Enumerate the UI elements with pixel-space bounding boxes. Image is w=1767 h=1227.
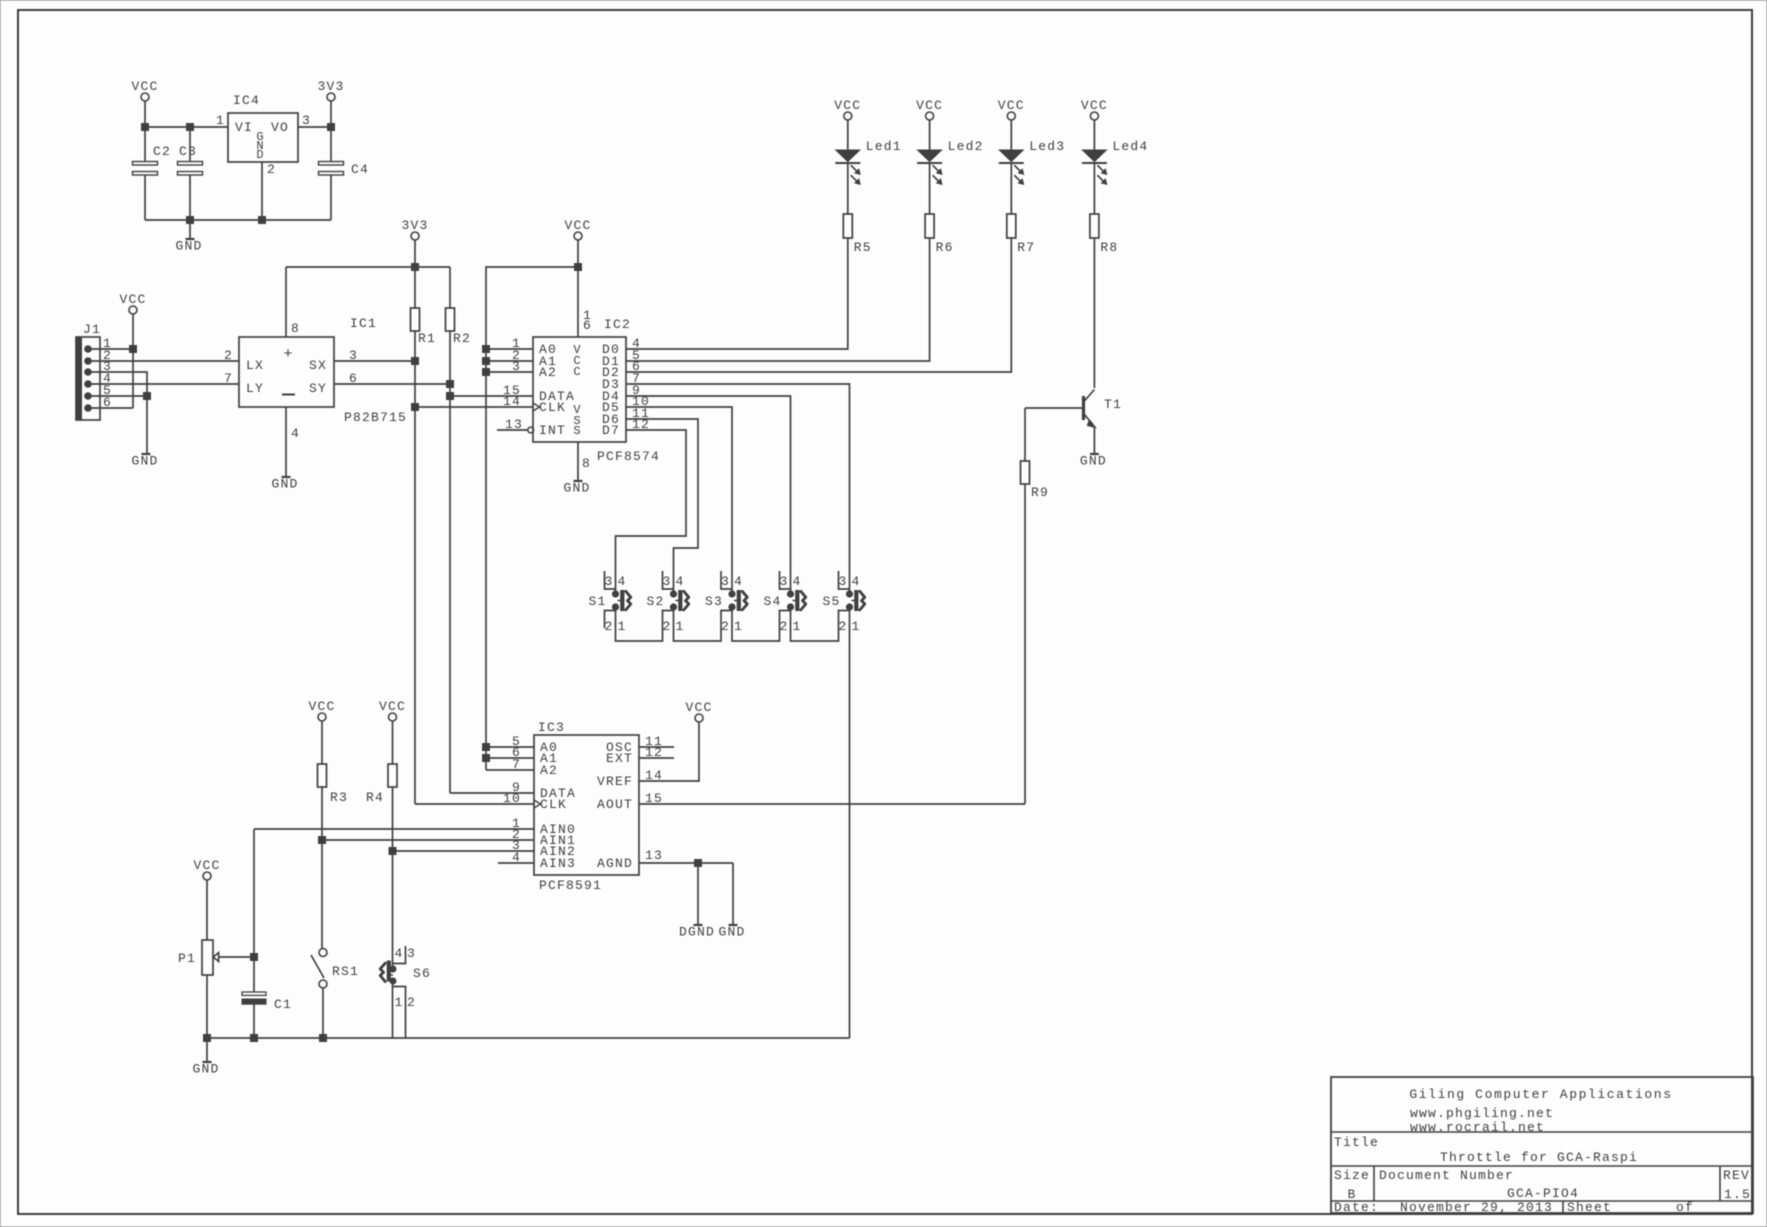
LED Led3 [999, 139, 1066, 214]
reed switch RS1 [311, 949, 359, 1039]
power symbol VCC (VREF) [685, 700, 712, 722]
svg-text:1: 1 [617, 619, 626, 634]
svg-text:S4: S4 [763, 594, 781, 609]
pin 3 label of IC4 [302, 113, 311, 128]
svg-text:S6: S6 [413, 966, 431, 981]
svg-text:3: 3 [604, 574, 613, 589]
svg-text:VCC: VCC [685, 700, 712, 715]
pin 7 label of IC2 [632, 371, 641, 386]
wire IC2 INT stub with inversion bubble [497, 427, 534, 433]
svg-text:3: 3 [662, 574, 671, 589]
svg-text:EXT: EXT [606, 751, 633, 766]
resistor R6 [925, 214, 954, 255]
wire R2 line to IC3 DATA [450, 792, 534, 794]
junction rail/RS1 [320, 1035, 327, 1042]
svg-text:3: 3 [407, 946, 416, 961]
pin 3 label of IC1 [349, 348, 358, 363]
ground symbol below J1 [131, 454, 158, 469]
I/O expander IC2 (PCF8574) [533, 317, 631, 442]
svg-text:of: of [1676, 1200, 1694, 1215]
wire J1 pin 3 to ground stem [91, 372, 147, 454]
wire IC3 AIN3 open stub [498, 862, 534, 864]
resistor R8 [1090, 214, 1119, 255]
junction J1 pin5/ground stem [144, 393, 151, 400]
pin 3 label of IC3 [512, 838, 521, 853]
pin 6 label of IC3 [512, 745, 521, 760]
svg-text:2: 2 [224, 348, 233, 363]
pin 15 label of IC3 [645, 791, 663, 806]
svg-text:Sheet: Sheet [1567, 1200, 1612, 1215]
svg-text:VCC: VCC [193, 858, 220, 873]
pin 10 label of IC3 [503, 791, 521, 806]
svg-text:2: 2 [267, 162, 276, 177]
ground symbol bottom rail [192, 1038, 219, 1077]
pin 1 label of J1 [103, 336, 112, 351]
junction address line / IC2 A1 [483, 358, 490, 365]
pin 2 label of J1 [103, 348, 112, 363]
svg-text:GND: GND [271, 477, 298, 492]
svg-text:1: 1 [851, 619, 860, 634]
pin 8 label of IC1 [291, 321, 300, 336]
pin 11 label of IC3 [645, 734, 663, 749]
capacitor C3 [178, 127, 203, 220]
svg-text:4: 4 [792, 574, 801, 589]
junction address line / IC3 A0 [483, 744, 490, 751]
svg-text:S3: S3 [705, 594, 723, 609]
wire IC3 OSC open stub [639, 746, 674, 748]
pin 8 label of IC2 [582, 456, 591, 471]
junction R3/AIN1 [319, 837, 326, 844]
svg-text:4: 4 [851, 574, 860, 589]
wire IC2 D1 to R6 [626, 238, 930, 361]
pin 14 label of IC3 [645, 768, 663, 783]
wire IC3 A2 stub [486, 769, 534, 771]
svg-text:A2: A2 [540, 763, 558, 778]
wire IC2 pin 8 to ground [577, 442, 579, 481]
svg-text:P1: P1 [178, 951, 196, 966]
LED Led1 [835, 139, 902, 214]
wire 3V3 rail [286, 266, 450, 268]
pin 2 label of IC2 [512, 348, 521, 363]
wire IC2 D7 to switch S1 [616, 430, 687, 591]
part value label PCF8574 [597, 449, 660, 464]
wire S3 pin 1 to S4 pin 2 [732, 607, 791, 641]
svg-text:4: 4 [617, 574, 626, 589]
wire IC2 D0 to R5 [626, 238, 848, 349]
wire R8 to T1 collector [1093, 238, 1095, 388]
svg-text:GND: GND [718, 925, 745, 940]
svg-text:2: 2 [604, 619, 613, 634]
power symbol 3V3 (pull-up supply) [401, 218, 428, 267]
pin 6 label of IC1 [349, 371, 358, 386]
svg-text:VCC: VCC [308, 699, 335, 714]
wire IC4 pin 3 to 3V3 node [298, 126, 331, 128]
wire J1 pin 4 to IC1 LY [91, 383, 239, 385]
svg-text:VCC: VCC [379, 699, 406, 714]
pin 11 label of IC2 [632, 406, 650, 421]
wire T1 emitter to ground [1093, 426, 1095, 454]
push button S1 [588, 571, 630, 634]
junction at C3 tap [187, 124, 194, 131]
svg-text:VCC: VCC [834, 98, 861, 113]
svg-text:3V3: 3V3 [317, 79, 344, 94]
connector J1 [76, 322, 101, 420]
resistor R9 [1021, 408, 1050, 804]
svg-text:GND: GND [175, 239, 202, 254]
svg-text:A2: A2 [539, 365, 557, 380]
svg-text:S: S [573, 424, 580, 438]
pin 15 label of IC2 [503, 383, 521, 398]
svg-text:VCC: VCC [131, 79, 158, 94]
pin 3 label of IC2 [512, 359, 521, 374]
svg-text:1: 1 [216, 113, 225, 128]
svg-text:1: 1 [394, 995, 403, 1010]
svg-text:3: 3 [721, 574, 730, 589]
wire T1 base to R9 [1025, 407, 1084, 409]
svg-text:AOUT: AOUT [597, 797, 633, 812]
pin 7 label of IC3 [512, 757, 521, 772]
title block [1331, 1077, 1753, 1215]
wire IC2 D4 to switch S4 [626, 396, 791, 591]
pin 3 label of J1 [103, 359, 112, 374]
svg-text:R3: R3 [330, 790, 348, 805]
pin 5 label of J1 [103, 383, 112, 398]
svg-text:REV: REV [1723, 1168, 1750, 1183]
svg-text:VO: VO [271, 120, 289, 135]
wire IC2 A0 stub [486, 348, 533, 350]
svg-text:2: 2 [838, 619, 847, 634]
junction R1/SX [412, 358, 419, 365]
svg-text:DGND: DGND [679, 925, 715, 940]
wire ground rail under IC4 [145, 219, 331, 221]
wire IC2 D5 to switch S3 [626, 407, 732, 591]
wire R1 node to IC2 CLK [415, 406, 533, 408]
svg-text:13: 13 [645, 848, 663, 863]
svg-text:www.phgiling.net: www.phgiling.net [1410, 1106, 1554, 1121]
resistor R3 [318, 764, 349, 948]
junction rail/C1 [251, 1035, 258, 1042]
pin 2 label of IC1 [224, 348, 233, 363]
ground symbol below IC1 [271, 477, 298, 492]
power symbol VCC (Led1) [834, 98, 861, 150]
svg-text:VCC: VCC [998, 98, 1025, 113]
potentiometer P1 [178, 940, 254, 1038]
svg-text:VCC: VCC [916, 98, 943, 113]
power symbol VCC (J1 supply) [119, 292, 146, 408]
wire R2 node to IC2 DATA [450, 395, 533, 397]
wire IC2 A2 stub [486, 371, 533, 373]
junction R4/AIN2 [389, 848, 396, 855]
svg-text:IC1: IC1 [350, 316, 377, 331]
transistor T1 [1084, 390, 1123, 428]
svg-text:2: 2 [662, 619, 671, 634]
svg-text:www.rocrail.net: www.rocrail.net [1410, 1120, 1545, 1135]
wire IC3 A0 stub [486, 746, 534, 748]
svg-text:R4: R4 [366, 790, 384, 805]
svg-text:R1: R1 [418, 331, 436, 346]
voltage regulator IC4 [228, 93, 298, 162]
pin 4 label of J1 [103, 371, 112, 386]
svg-text:S5: S5 [822, 594, 840, 609]
svg-text:LX: LX [246, 358, 264, 373]
power symbol 3V3 (regulator output) [317, 79, 344, 127]
pin 4 label of IC3 [512, 850, 521, 865]
power symbol VCC (R3) [308, 699, 335, 764]
svg-text:GND: GND [131, 454, 158, 469]
svg-text:8: 8 [582, 456, 591, 471]
junction R1/IC2 CLK [412, 404, 419, 411]
I2C buffer IC1 (P82B715) [239, 316, 377, 407]
wire IC3 A1 stub [486, 757, 534, 759]
power symbol VCC (input of IC4) [131, 79, 158, 127]
junction address line / IC3 A1 [483, 755, 490, 762]
svg-text:R6: R6 [936, 240, 954, 255]
svg-text:Led4: Led4 [1112, 139, 1148, 154]
power symbol VCC (Led4) [1081, 98, 1108, 150]
svg-text:GND: GND [1080, 454, 1107, 469]
pin 1 label of IC3 [512, 816, 521, 831]
wire IC3 VREF to VCC [639, 722, 699, 781]
svg-text:GND: GND [563, 481, 590, 496]
svg-text:AIN3: AIN3 [540, 856, 576, 871]
resistor R4 [366, 764, 397, 966]
wire IC2 D6 to switch S2 [626, 419, 698, 591]
svg-text:Title: Title [1334, 1135, 1379, 1150]
svg-text:PCF8574: PCF8574 [597, 449, 660, 464]
svg-text:C2: C2 [153, 144, 171, 159]
wire IC2 D3 to switch S5 [626, 384, 850, 591]
pin 5 label of IC2 [632, 348, 641, 363]
svg-text:1: 1 [675, 619, 684, 634]
junction R2/IC2 DATA [447, 393, 454, 400]
svg-text:LY: LY [246, 381, 264, 396]
svg-text:Giling Computer Applications: Giling Computer Applications [1409, 1087, 1672, 1102]
svg-text:R2: R2 [453, 331, 471, 346]
wire IC2 A1 stub [486, 360, 533, 362]
svg-text:Throttle for GCA-Raspi: Throttle for GCA-Raspi [1440, 1150, 1638, 1165]
wire R3 node to IC3 AIN1 [322, 839, 534, 841]
junction at VCC/C2 node [142, 124, 149, 131]
pin 9 label of IC3 [512, 780, 521, 795]
junction 3V3 stem [412, 264, 419, 271]
svg-text:Size: Size [1334, 1168, 1370, 1183]
svg-text:INT: INT [539, 423, 566, 438]
wire J1 pin 2 to IC1 LX [91, 360, 239, 362]
svg-text:IC3: IC3 [538, 720, 565, 735]
junction P1 wiper node [251, 954, 258, 961]
push button S5 [822, 571, 864, 634]
svg-text:S1: S1 [588, 594, 606, 609]
svg-text:3V3: 3V3 [401, 218, 428, 233]
junction rail/P1 [204, 1035, 211, 1042]
junction at IC4 pin 2 [259, 217, 266, 224]
wire IC2 D2 to R7 [626, 238, 1011, 372]
svg-text:C1: C1 [274, 997, 292, 1012]
svg-text:R9: R9 [1031, 485, 1049, 500]
wire S5 pin 1 down to ground rail [849, 607, 851, 1038]
wire wiper node up to AIN0 [253, 829, 255, 957]
power symbol VCC (R4) [379, 699, 406, 764]
svg-text:Led1: Led1 [866, 139, 902, 154]
wire S2 pin 1 to S3 pin 2 [674, 607, 733, 641]
pin 12 label of IC3 [645, 745, 663, 760]
power symbol VCC (IC2 supply) [564, 218, 591, 337]
pin 6 label of IC2 [632, 359, 641, 374]
wire IC1 pin 8 to 3V3 rail [285, 267, 287, 337]
pin 16 label of IC2 (VCC) [583, 308, 592, 333]
svg-text:Led2: Led2 [948, 139, 984, 154]
wire VCC to IC4 pin 1 [145, 126, 228, 128]
pin 7 label of IC1 [224, 371, 233, 386]
svg-text:2: 2 [779, 619, 788, 634]
wire IC1 pin 4 to ground [285, 407, 287, 477]
svg-text:R7: R7 [1017, 240, 1035, 255]
junction at C3/GND stem [187, 217, 194, 224]
junction address line / IC2 A0 [483, 346, 490, 353]
pin 4 label of IC2 [632, 336, 641, 351]
push button S2 [646, 571, 688, 634]
svg-text:Document Number: Document Number [1379, 1168, 1514, 1183]
wire J1 pin 5 to ground stem [91, 395, 147, 397]
svg-text:VCC: VCC [119, 292, 146, 307]
resistor R5 [843, 214, 872, 255]
svg-text:3: 3 [302, 113, 311, 128]
svg-text:PCF8591: PCF8591 [539, 878, 602, 893]
svg-text:4: 4 [734, 574, 743, 589]
svg-text:SX: SX [309, 358, 327, 373]
svg-text:3: 3 [779, 574, 788, 589]
svg-text:Date:: Date: [1334, 1200, 1379, 1215]
capacitor C1 [242, 957, 292, 1038]
svg-text:IC2: IC2 [604, 317, 631, 332]
power symbol VCC (P1) [193, 858, 220, 940]
push button S4 [763, 571, 805, 634]
svg-text:Led3: Led3 [1029, 139, 1065, 154]
pin 13 label of IC3 [645, 848, 663, 863]
svg-text:CLK: CLK [540, 797, 567, 812]
pin 1 label of IC2 [512, 336, 521, 351]
svg-text:8: 8 [291, 321, 300, 336]
pin 12 label of IC2 [632, 417, 650, 432]
svg-text:R8: R8 [1100, 240, 1118, 255]
ground symbol below T1 [1080, 454, 1107, 469]
part value label PCF8591 [539, 878, 602, 893]
svg-text:P82B715: P82B715 [344, 410, 407, 425]
capacitor C2 [133, 127, 172, 220]
svg-text:IC4: IC4 [233, 93, 260, 108]
svg-text:1.5: 1.5 [1724, 1187, 1751, 1202]
svg-text:4: 4 [291, 426, 300, 441]
svg-text:GND: GND [192, 1062, 219, 1077]
svg-text:CLK: CLK [539, 400, 566, 415]
svg-text:AGND: AGND [597, 856, 633, 871]
ground symbol below IC4 [175, 220, 202, 254]
wire S1 pin 2 open stub [605, 611, 616, 629]
wire S1 pin 1 to S2 pin 2 [616, 607, 674, 641]
wire S4 pin 1 to S5 pin 2 [791, 607, 850, 641]
wire J1 pin 6 to VCC line [91, 407, 133, 409]
push button S6 [380, 946, 431, 1038]
svg-text:November 29, 2013: November 29, 2013 [1400, 1200, 1553, 1215]
wire bottom ground rail [207, 1037, 850, 1039]
pin 4 label of IC1 [291, 426, 300, 441]
pin 2 label of IC3 [512, 827, 521, 842]
svg-text:GCA-PIO4: GCA-PIO4 [1507, 1186, 1579, 1201]
wire P1 wiper node to IC3 AIN0 [254, 828, 534, 830]
junction at 3V3/C4 node [328, 124, 335, 131]
svg-text:+: + [283, 346, 292, 363]
svg-text:4: 4 [675, 574, 684, 589]
wire IC1 SY pin 6 to R2 node [334, 383, 450, 385]
svg-text:RS1: RS1 [332, 964, 359, 979]
junction address line / IC2 A2 [483, 369, 490, 376]
pin 14 label of IC2 [503, 394, 521, 409]
svg-text:SY: SY [309, 381, 327, 396]
power symbol VCC (Led3) [998, 98, 1025, 150]
resistor R2 [446, 267, 472, 793]
pin 5 label of IC3 [512, 734, 521, 749]
wire R4 node to IC3 AIN2 [393, 850, 535, 852]
wire IC3 EXT open stub [639, 757, 674, 759]
ground symbol GND (analog) [718, 863, 745, 940]
ground symbol DGND [679, 863, 715, 940]
junction R2/SY [447, 381, 454, 388]
svg-text:C: C [573, 365, 580, 379]
svg-text:7: 7 [224, 371, 233, 386]
pin 10 label of IC2 [632, 394, 650, 409]
pin 6 label of J1 [103, 395, 112, 410]
svg-text:1: 1 [792, 619, 801, 634]
svg-text:T1: T1 [1104, 397, 1122, 412]
svg-text:C4: C4 [351, 162, 369, 177]
svg-text:R5: R5 [854, 240, 872, 255]
ADC/DAC IC3 (PCF8591) [534, 720, 639, 875]
LED Led4 [1082, 139, 1149, 214]
power symbol VCC (Led2) [916, 98, 943, 150]
part value label P82B715 [344, 410, 407, 425]
junction J1 pin1/VCC line [130, 346, 137, 353]
svg-text:1: 1 [734, 619, 743, 634]
wire IC4 pin 2 (GND) down [261, 162, 263, 220]
wire R1 line to IC3 CLK [415, 803, 534, 805]
svg-text:S2: S2 [646, 594, 664, 609]
svg-text:C3: C3 [179, 144, 197, 159]
resistor R7 [1007, 214, 1036, 255]
wire IC3 AOUT to R9 [639, 803, 1025, 805]
svg-text:VREF: VREF [597, 774, 633, 789]
wire VCC to address pull-up line [486, 267, 578, 770]
svg-text:J1: J1 [83, 322, 101, 337]
svg-text:4: 4 [394, 946, 403, 961]
pin 9 label of IC2 [632, 383, 641, 398]
pin 1 label of IC4 [216, 113, 225, 128]
wire IC1 SX pin 3 to R1 node [334, 360, 415, 362]
LED Led2 [917, 139, 984, 214]
svg-text:D7: D7 [602, 423, 620, 438]
push button S3 [705, 571, 747, 634]
pin 13 label of IC2 [505, 417, 523, 432]
svg-text:6: 6 [583, 318, 592, 333]
svg-text:VCC: VCC [1081, 98, 1108, 113]
resistor R1 [411, 267, 437, 804]
ground symbol below IC2 [563, 481, 590, 496]
junction VCC stem above IC2 [575, 264, 582, 271]
pin 2 label of IC4 [267, 162, 276, 177]
capacitor C4 [319, 127, 370, 220]
svg-text:D: D [256, 148, 263, 162]
svg-text:VI: VI [235, 120, 253, 135]
svg-text:2: 2 [721, 619, 730, 634]
